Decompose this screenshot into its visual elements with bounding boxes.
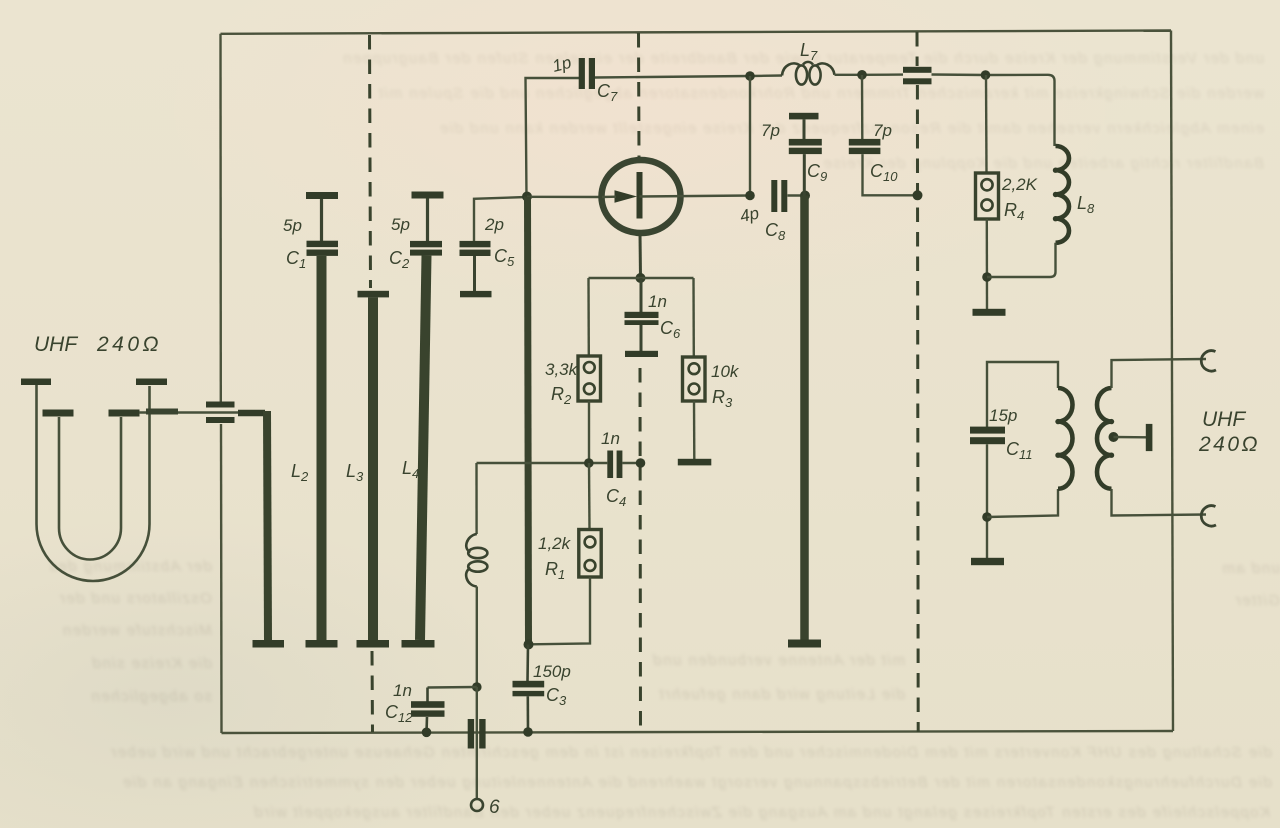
svg-text:1n: 1n [601,429,620,448]
capacitor C7 plates [579,58,595,89]
capacitor C6 plates [625,312,659,325]
input coupling rod [267,411,268,640]
svg-text:L4: L4 [402,458,419,481]
emitter resonator rod [528,197,529,645]
C6 bottom stem [640,325,643,351]
node: collector top junction [745,71,755,81]
C3 bottom stem [526,696,529,732]
svg-text:C9: C9 [807,161,827,184]
node: C12 junction [472,682,482,692]
node: R2/R1/C4 junction [584,458,594,468]
center tap chassis bar [1146,424,1153,451]
wire: feedthrough to L8 [932,75,1055,147]
feedthrough capacitor (top wall) [903,67,932,85]
svg-text:5p: 5p [283,216,302,235]
trimmer capacitor C2 plates [410,241,442,256]
wire: diode to bias node [639,234,643,279]
inductor L8 [1053,146,1069,243]
diode mixer (circle) [602,160,681,233]
wire: primary bottom [987,489,1058,517]
resistor R1 [579,530,601,578]
C3 top stem [526,645,529,682]
C12 top stem [426,688,429,702]
svg-text:C11: C11 [1006,439,1033,462]
C5 end bar [460,291,492,297]
node: C3 on box edge [523,727,533,737]
choke bottom lead [476,587,478,688]
node: C8/diode wire junction [745,191,755,201]
capacitor C11 plates [970,427,1005,445]
svg-text:1p: 1p [550,53,573,76]
L3 end bar [357,640,390,648]
shield partition wall 1 (dashed) [370,35,373,732]
svg-text:L3: L3 [346,461,364,484]
emitter choke coil [466,534,487,587]
svg-text:6: 6 [489,797,500,818]
output resonator rod [800,196,809,641]
svg-text:1n: 1n [648,292,667,311]
node: C4 shield junction [636,458,646,468]
secondary bottom wire [1112,489,1207,516]
antenna terminal bar (outer right) [136,379,167,386]
bottom feedthrough capacitor plates [468,719,486,749]
resistor R3 [683,357,706,401]
resonator rod L3 [368,297,378,640]
node: output rod top [800,191,810,201]
wire: C12 to junction [428,686,477,689]
svg-text:UHF: UHF [34,333,78,356]
center tap wire [1114,436,1147,439]
C2 stem [426,199,429,242]
C12 bottom stem [425,717,428,732]
node: base junction [522,192,532,202]
folded dipole antenna (outer loop) [37,385,150,581]
R1 top lead [588,463,591,530]
svg-text:2p: 2p [484,215,504,234]
wire: bias rail [589,277,694,279]
antenna feed thick stub [146,409,178,415]
svg-text:R4: R4 [1004,200,1024,223]
R3 top lead [692,278,695,357]
input feedthrough capacitor plates [206,402,235,424]
trimmer capacitor C1 plates [307,241,339,256]
svg-text:10k: 10k [711,362,740,381]
svg-text:C10: C10 [870,161,898,184]
C6 end bar [625,351,658,357]
C9 bottom stem [803,154,806,195]
R4 ground bar [973,309,1006,316]
C9 top bar [789,113,819,120]
svg-text:UHF: UHF [1202,408,1246,431]
wire: base node riser to top [526,78,580,197]
antenna terminal bar (outer left) [21,379,51,386]
svg-text:2,2K: 2,2K [1001,175,1038,194]
svg-text:C5: C5 [494,246,515,269]
svg-text:4p: 4p [738,204,760,227]
input rod end bar [253,640,285,648]
wire: junction through bottom feedthrough [476,687,478,799]
output terminal (bottom) [1201,506,1216,526]
enclosure shield box [221,31,1174,734]
R4 bottom lead [986,219,989,309]
svg-text:L2: L2 [291,461,309,484]
node: C10 to shield wall [913,190,923,200]
node: bias junction [636,273,646,283]
node: R4 top junction [981,70,991,80]
svg-text:L7: L7 [800,40,818,63]
L2 end bar [306,640,338,648]
input coupling arm (thick) [238,410,265,417]
node: emitter rod bottom [524,640,534,650]
wire: C4 to shield node [622,462,640,464]
output rod end bar [788,640,821,648]
resistor R4 [976,173,999,219]
wire: collector riser [749,76,751,196]
left UHF 240ohm label [34,333,162,356]
R1 bottom lead [531,577,590,644]
capacitor C4 plates [607,451,622,479]
shield partition wall 2 (dashed) [639,33,641,732]
L3 top terminal bar [358,291,390,298]
C5 top wire to base node [474,197,527,241]
shield partition wall 3 (dashed) [917,32,918,732]
C11 top wire [987,362,1058,427]
transformer primary coil [1055,388,1072,489]
node: C12 on box edge [422,728,432,738]
C5 bottom stem [473,256,476,291]
R3 bottom lead [693,401,696,459]
svg-text:C4: C4 [606,486,626,509]
svg-text:R3: R3 [712,387,733,410]
folded dipole antenna (inner loop) [59,417,121,559]
C10 bottom stem and wire to wall [863,154,918,195]
right UHF 240ohm label [1198,408,1260,456]
terminal 6 [471,799,483,811]
C1 stem [320,199,323,241]
secondary top wire [1112,359,1207,388]
wire: C10 riser [861,75,864,139]
C1 top terminal bar [306,192,338,199]
svg-text:C12: C12 [385,702,413,725]
transformer secondary coil [1097,388,1114,489]
svg-text:R1: R1 [545,559,565,582]
svg-text:C7: C7 [597,81,618,104]
resistor R2 [578,356,601,401]
capacitor C10 plates [849,139,881,154]
capacitor C3 plates [513,681,545,697]
R4 top lead [985,75,988,173]
node: L8/C10 branch junction [857,70,867,80]
svg-text:C3: C3 [546,685,567,708]
capacitor C12 plates [411,701,445,717]
trimmer capacitor C9 plates [789,139,822,154]
resonator rod L2 [317,256,327,640]
wire through diode [602,196,750,198]
antenna terminal bar (inner right) [109,410,140,417]
svg-text:3,3k: 3,3k [545,360,579,379]
svg-text:1n: 1n [393,681,412,700]
C11 bottom stem [986,444,988,558]
L8 bottom wire [987,243,1056,277]
svg-text:C1: C1 [286,248,306,271]
svg-text:7p: 7p [761,121,780,140]
node: R4/L8 bottom junction [982,272,992,282]
C9 stem [803,119,806,139]
node: secondary center tap [1109,432,1119,442]
wire: C8 to output rod [788,194,806,196]
svg-text:L8: L8 [1077,193,1095,216]
svg-text:5p: 5p [391,215,410,234]
R3 ground bar [678,459,712,466]
svg-text:150p: 150p [533,662,571,681]
wire: emitter tap row (C4) [477,462,608,464]
C11 ground bar [971,558,1004,565]
svg-text:240Ω: 240Ω [96,333,162,356]
svg-text:1,2k: 1,2k [538,534,572,553]
antenna feed wire [139,411,240,413]
antenna terminal bar (inner left) [43,410,74,417]
wire: L7 to feedthrough [835,73,904,76]
svg-text:C8: C8 [765,220,786,243]
svg-text:240Ω: 240Ω [1198,433,1260,456]
svg-text:15p: 15p [989,406,1017,425]
C2 top terminal bar [412,192,444,199]
svg-text:C6: C6 [660,318,681,341]
resonator rod L4 [420,256,427,640]
capacitor C5 plates [460,241,491,256]
svg-text:R2: R2 [551,384,572,407]
inductor L7 [782,62,835,85]
R2 top lead [587,278,590,356]
svg-text:7p: 7p [873,121,892,140]
svg-text:C2: C2 [389,248,410,271]
node: C11/primary bottom [982,512,992,522]
diode cathode bar [637,172,643,219]
choke top lead [475,463,478,534]
capacitor C8 plates [771,180,787,212]
wire: C7 to L7 [595,76,782,78]
wire: base node to diode [527,196,602,199]
C6 stem [640,278,643,312]
R2 bottom lead [588,401,590,463]
L4 end bar [402,640,435,648]
diode anode arrow [615,190,638,203]
output terminal (top) [1201,351,1216,371]
